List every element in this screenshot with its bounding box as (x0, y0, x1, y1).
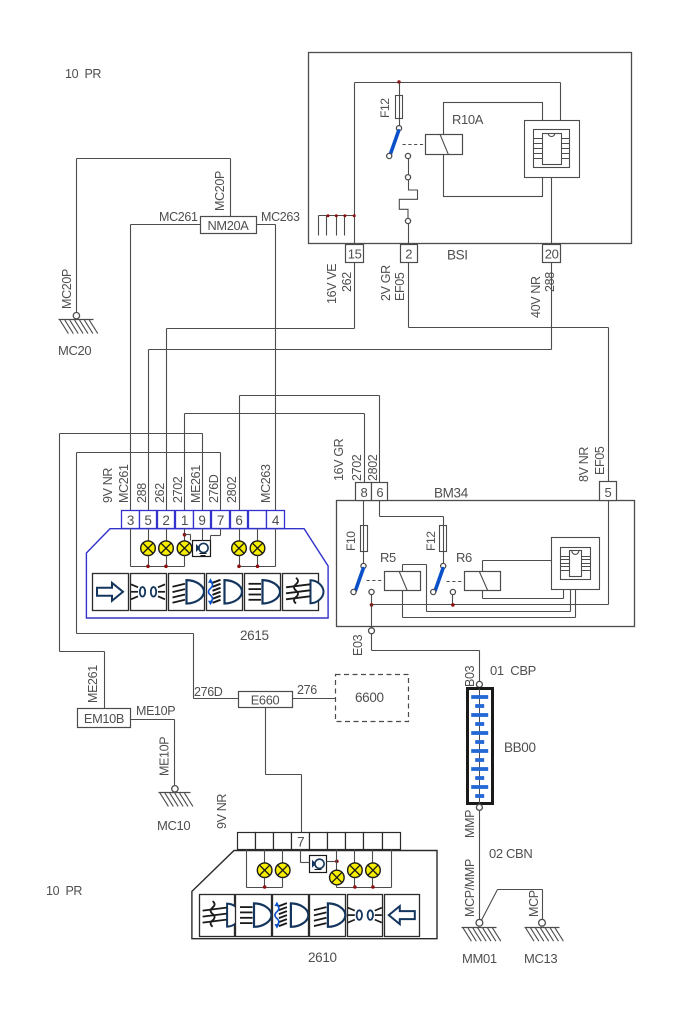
return bus A (pin3) (131, 529, 185, 569)
ground MC20 (58, 313, 98, 359)
svg-text:4: 4 (272, 513, 280, 528)
connector E03 (369, 628, 375, 634)
svg-text:2702: 2702 (171, 476, 185, 503)
relay coil R6 (465, 571, 501, 591)
svg-text:02 CBN: 02 CBN (489, 846, 532, 861)
return bus C (2610 left) (247, 850, 283, 889)
label BM34 (434, 486, 469, 501)
label MC20P (at NM20A) (213, 171, 227, 211)
wire EF05 BSI pin2 to BM34 pin5 (409, 263, 609, 482)
wire side lamp to junction (327, 861, 337, 863)
lamp L6 (2610) (257, 850, 272, 888)
svg-text:16V GR: 16V GR (332, 438, 346, 481)
label 2802 (BM34) (366, 454, 380, 481)
wire pin6 to fuse F12 (BM34) (380, 501, 444, 526)
ground MM01 (462, 919, 501, 966)
wire pin7 to side lamp (2610) (301, 850, 310, 863)
svg-text:R5: R5 (380, 550, 396, 565)
svg-text:E660: E660 (251, 692, 280, 707)
label 276D (2615 pin7) (207, 474, 221, 503)
side lamp module (2610) (310, 856, 327, 873)
switch arm F12/R10A (390, 131, 398, 155)
return bus B (pin4) (237, 529, 275, 569)
chip U1 (BSI) (525, 121, 580, 178)
lamp L1 (pin5) (141, 529, 156, 567)
icon high beam (2610) (236, 895, 272, 937)
label F12 (BM34) (424, 531, 438, 551)
switch contact right (405, 153, 410, 158)
wire R6 coil top to chip (483, 561, 552, 572)
label B03 (463, 665, 477, 687)
label ME261 (EM10B) (86, 665, 100, 703)
pin 20 (BSI) (543, 245, 561, 263)
label MC263 (2615 pin4) (259, 464, 273, 503)
wire 9V NR E660 to 2610 pin7 (266, 708, 302, 833)
label MCP (527, 890, 541, 917)
BSI internal supply rail (355, 83, 561, 244)
lamp L4 (pin6) (232, 529, 247, 567)
wire R5 coil top to chip (403, 565, 571, 612)
label 2V GR (379, 265, 393, 301)
pin 5 (BM34) (600, 482, 617, 501)
node line contacts to pin5 (372, 501, 609, 605)
svg-text:2615: 2615 (240, 628, 269, 643)
svg-text:15: 15 (348, 247, 362, 262)
svg-text:6600: 6600 (355, 690, 384, 705)
switch contact left (387, 153, 392, 158)
label 262 (2615 pin2) (153, 483, 167, 503)
label MC261 (at NM20A) (159, 210, 198, 224)
svg-text:BB00: BB00 (504, 740, 536, 755)
label 10 PR (top) (65, 67, 101, 81)
label 10 PR (bottom) (46, 884, 82, 898)
relay coil R5 (385, 571, 421, 591)
svg-text:2: 2 (162, 513, 169, 528)
pin row 2615 (pins 3 5 2 1 9 7 6 - 4) (122, 511, 285, 529)
svg-text:ME10P: ME10P (158, 737, 172, 776)
svg-text:NM20A: NM20A (208, 218, 250, 233)
icon low beam (2610) (310, 895, 346, 937)
label MC263 (at NM20A) (261, 210, 300, 224)
switch contact R5 left (351, 589, 356, 594)
multipin connector symbol (BSI left) (319, 214, 356, 235)
junction pin1 wire to side lamp (183, 533, 191, 541)
icon fog lamp (2610) (200, 895, 241, 937)
svg-text:276: 276 (297, 683, 317, 697)
svg-text:MC20P: MC20P (213, 171, 227, 211)
svg-text:E03: E03 (351, 634, 365, 656)
wire MC263 from NM20A to 2615 pin 4 (257, 225, 276, 511)
svg-text:F10: F10 (344, 531, 358, 551)
svg-text:ME261: ME261 (189, 465, 203, 503)
label MC20P (left vertical) (60, 269, 74, 309)
svg-text:MMP: MMP (463, 810, 477, 838)
label R6 (456, 550, 472, 565)
svg-text:EM10B: EM10B (84, 711, 124, 726)
svg-text:8: 8 (361, 485, 368, 500)
svg-text:7: 7 (217, 513, 224, 528)
switch contact F10 top (361, 563, 366, 568)
label 16V VE (325, 264, 339, 304)
svg-text:F12: F12 (378, 98, 392, 118)
svg-text:276D: 276D (207, 474, 221, 503)
svg-text:BM34: BM34 (434, 486, 469, 501)
label 8V NR (577, 447, 591, 482)
label 262 (BSI) (340, 272, 354, 292)
svg-text:R10A: R10A (452, 112, 484, 127)
svg-text:9: 9 (198, 513, 205, 528)
label EF05 (BSI) (393, 272, 407, 301)
svg-text:2610: 2610 (308, 950, 337, 965)
label 288 (2615 pin5) (135, 483, 149, 503)
fuse F10 (BM34) (361, 501, 368, 564)
ECU box BSI (309, 53, 632, 244)
wire MC261 from NM20A to 2615 pin 3 (131, 225, 201, 511)
pin 6 (BM34) (372, 483, 388, 501)
label 2610 (308, 950, 337, 965)
junction on rail at fuse F12 (397, 80, 400, 83)
svg-text:6: 6 (235, 513, 242, 528)
svg-text:5: 5 (144, 513, 151, 528)
switch contact F12 top (441, 563, 446, 568)
svg-text:7: 7 (297, 835, 304, 850)
lamp L5 (blank pin) (250, 529, 265, 567)
junction R6 contact (451, 603, 455, 607)
svg-text:MC13: MC13 (524, 951, 557, 966)
label BB00 (504, 740, 536, 755)
icon turn indicator (2615) (93, 574, 129, 611)
fuse F12 (BSI) (396, 83, 403, 126)
svg-text:MCP/MMP: MCP/MMP (463, 859, 477, 917)
dashed link R6 (447, 581, 462, 583)
switch contact R6 right (450, 589, 455, 594)
wire ME261 2615-pin9 to EM10B (60, 434, 203, 709)
fuse F12 (BM34) (440, 526, 447, 564)
lamp unit 2610 outline (192, 851, 437, 939)
switch arm R5 (355, 569, 363, 591)
ground MC13 (524, 919, 563, 966)
label EF05 (BM34) (593, 446, 607, 475)
label F12 (BSI) (378, 98, 392, 118)
label 02 CBN (489, 846, 532, 861)
icon position light (2610) (348, 895, 383, 937)
wire 262 BSI pin15 to 2615 pin2 (167, 263, 355, 511)
pin 8 (BM34) (356, 483, 372, 501)
label ME10P (vertical) (158, 737, 172, 776)
svg-text:288: 288 (135, 483, 149, 503)
wire 2702 2615-pin1 to BM34 pin8 (185, 414, 365, 511)
junction at lamp L8 (335, 860, 339, 864)
svg-text:B03: B03 (463, 665, 477, 687)
svg-text:2802: 2802 (366, 454, 380, 481)
label 2802 (2615 pin6) (225, 476, 239, 503)
wire MMP battery to ground MM01 (479, 811, 481, 920)
svg-text:MC263: MC263 (261, 210, 300, 224)
dashed link R5 (367, 580, 382, 582)
svg-text:9V NR: 9V NR (215, 794, 229, 829)
label MMP (463, 810, 477, 838)
ECU box BM34 (337, 501, 635, 627)
pin 15 (BSI) (346, 245, 364, 263)
svg-text:R6: R6 (456, 550, 472, 565)
svg-text:262: 262 (340, 272, 354, 292)
return bus D (2610 right) (337, 850, 392, 889)
icon fog lamp (2615) (283, 574, 324, 611)
connector E660 (239, 692, 293, 708)
wire 276D 2615-pin7 to E660 (77, 453, 239, 699)
label 01 CBP (490, 663, 536, 678)
junction R5 contact (370, 603, 374, 607)
wire B03 E03 to BB00 (372, 634, 480, 682)
label R5 (380, 550, 396, 565)
svg-text:EF05: EF05 (593, 446, 607, 475)
wire to connector E03 (371, 605, 373, 629)
contact output pair (inline connector) (405, 159, 410, 191)
lamp L2 (pin2) (159, 529, 174, 567)
contact before pin 2 (405, 218, 410, 243)
svg-text:8V NR: 8V NR (577, 447, 591, 482)
label MC261 (2615 pin3) (117, 464, 131, 503)
dashed link arm to relay coil (403, 144, 425, 146)
switch arm R6 (435, 569, 443, 591)
chip U2 (BM34) (552, 538, 600, 590)
wire pin9 to side lamp (202, 529, 204, 541)
connector EM10B (78, 709, 131, 728)
connector NM20A (201, 217, 257, 234)
side lamp module (2615) (193, 541, 211, 557)
svg-text:2702: 2702 (350, 454, 364, 481)
icon high beam (2615) (245, 574, 281, 611)
lamp L9 (2610) (348, 850, 363, 888)
svg-text:20: 20 (545, 247, 559, 262)
icon headlamp levelling (2615) (207, 574, 243, 611)
label ME10P (horizontal) (136, 704, 175, 718)
svg-text:2802: 2802 (225, 476, 239, 503)
svg-text:2V GR: 2V GR (379, 265, 393, 301)
wire ME10P EM10B to ground MC10 (131, 720, 175, 787)
svg-text:ME10P: ME10P (136, 704, 175, 718)
pin row 2610 (pin 7) (238, 833, 401, 850)
svg-text:16V VE: 16V VE (325, 264, 339, 304)
hidden unit 6600 (dashed) (336, 675, 409, 722)
label MC20 text (0, 0, 1, 1)
label MCP/MMP (463, 859, 477, 917)
wire MC20P from ground MC20 up and over to NM20A (77, 159, 231, 313)
lamp L10 (2610) (366, 850, 381, 888)
thermal zigzag to pin 2 (399, 190, 417, 218)
svg-text:MM01: MM01 (462, 951, 497, 966)
svg-text:10 PR: 10 PR (65, 67, 101, 81)
wire pin7 to side lamp (211, 529, 221, 541)
svg-text:MC263: MC263 (259, 464, 273, 503)
label E03 (351, 634, 365, 656)
battery BB00 (468, 681, 493, 810)
svg-text:F12: F12 (424, 531, 438, 551)
svg-text:MC10: MC10 (157, 818, 190, 833)
label 2702 (2615 pin1) (171, 476, 185, 503)
svg-text:2: 2 (405, 247, 412, 262)
svg-text:MCP: MCP (527, 890, 541, 917)
svg-text:ME261: ME261 (86, 665, 100, 703)
svg-text:BSI: BSI (447, 248, 468, 263)
label 40V NR (529, 276, 543, 318)
wire coil R10A in relay outline (0, 0, 1, 1)
svg-text:MC20P: MC20P (60, 269, 74, 309)
svg-text:262: 262 (153, 483, 167, 503)
svg-text:40V NR: 40V NR (529, 276, 543, 318)
wire chip to pin 20 (551, 178, 553, 245)
svg-text:01 CBP: 01 CBP (490, 663, 536, 678)
svg-text:3: 3 (127, 513, 134, 528)
wire R6 coil bottom to chip (483, 590, 564, 599)
svg-text:10 PR: 10 PR (46, 884, 82, 898)
pin 2 (BSI) (401, 245, 418, 263)
wire MCP MM01 to MC13 (482, 890, 543, 920)
relay outline R10A (444, 103, 543, 197)
wire 276 E660 to 6600 (293, 698, 336, 700)
lamp unit 2615 outline (86, 529, 328, 618)
wire 288 BSI pin20 to 2615 pin5 (149, 263, 552, 511)
svg-text:288: 288 (543, 272, 557, 292)
svg-text:9V NR: 9V NR (101, 468, 115, 503)
label 2615 (240, 628, 269, 643)
label F10 (344, 531, 358, 551)
label 288 (BSI) (543, 272, 557, 292)
lamp L7 (2610) (275, 850, 290, 888)
label 9V NR (2615) (101, 468, 115, 503)
label 9V NR (2610) (215, 794, 229, 829)
icon low beam (2615) (169, 574, 205, 611)
svg-text:276D: 276D (194, 685, 223, 699)
label 276 (297, 683, 317, 697)
icon headlamp levelling (2610) (273, 895, 309, 937)
label BSI (447, 248, 468, 263)
label R10A (452, 112, 484, 127)
lamp L3 (pin1) (177, 529, 192, 567)
icon position light (2615) (131, 574, 167, 611)
label 276D (E660) (194, 685, 223, 699)
svg-text:MC261: MC261 (159, 210, 198, 224)
wire R5 coil bottom to chip (403, 590, 576, 618)
label 2702 (BM34) (350, 454, 364, 481)
icon turn indicator (2610) (385, 895, 420, 937)
svg-text:MC20: MC20 (58, 343, 91, 358)
wire 2802 2615-pin6 to BM34 pin6 (240, 396, 380, 511)
svg-text:MC261: MC261 (117, 464, 131, 503)
switch contact R5 right (369, 589, 374, 594)
label ME261 (2615 pin9) (189, 465, 203, 503)
ground MC10 (157, 786, 193, 833)
svg-text:1: 1 (181, 513, 188, 528)
relay coil R10A (426, 134, 463, 154)
switch contact (fuse end) (396, 126, 401, 131)
svg-text:6: 6 (376, 485, 383, 500)
label 16V GR (332, 438, 346, 481)
switch contact R6 left (431, 589, 436, 594)
lamp L8 (low, 2610) (330, 850, 345, 888)
svg-text:5: 5 (604, 485, 611, 500)
svg-text:EF05: EF05 (393, 272, 407, 301)
